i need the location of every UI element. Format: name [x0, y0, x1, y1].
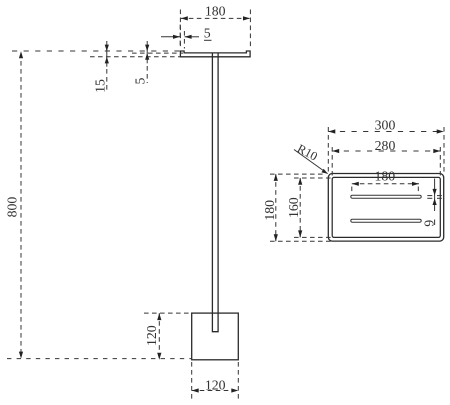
dimension 5 (lip height, vertical) [132, 41, 149, 84]
basket inner wall [332, 177, 440, 237]
svg-text:180: 180 [205, 4, 226, 19]
dimension 120 (base height, left) [144, 313, 192, 360]
svg-text:180: 180 [262, 200, 277, 221]
pole (vertical post) [212, 53, 218, 332]
svg-text:120: 120 [205, 378, 226, 393]
dimension 180 (basket outer depth, left) [262, 174, 332, 241]
dimension 800 (overall height) [4, 51, 23, 358]
R10 leader and label [294, 141, 328, 173]
svg-text:5: 5 [204, 25, 211, 40]
extension line: base bottom to left [7, 358, 192, 360]
svg-text:300: 300 [375, 118, 396, 133]
extension line: bar top (y=53) [132, 52, 183, 54]
svg-text:160: 160 [286, 197, 301, 218]
base square [192, 313, 239, 360]
slot 1 [351, 195, 421, 198]
top bar (front view, T-bar with end lips) [180, 51, 250, 57]
svg-text:120: 120 [144, 325, 159, 346]
dimension 120 (base width, bottom) [192, 362, 239, 400]
extension line: lip top to left [12, 50, 180, 52]
dimension 180 (slot length, inside basket) [352, 168, 419, 194]
slot 2 [351, 219, 421, 222]
svg-text:180: 180 [374, 168, 395, 183]
svg-text:800: 800 [4, 197, 19, 218]
svg-text:15: 15 [92, 79, 107, 93]
svg-text:5: 5 [132, 77, 147, 84]
dimension 300 (basket outer width) [328, 118, 444, 174]
dimension 15 (bar total height) [92, 41, 109, 93]
dimension 180 (top bar width) [180, 4, 250, 48]
svg-text:6: 6 [422, 220, 437, 227]
dimension 5 (lip width, horizontal) [161, 25, 212, 49]
dimension 280 (basket inner width) [332, 138, 440, 176]
basket outer outline (plan view, rounded rect R10) [328, 174, 443, 242]
dimension 6 (slot width) [422, 179, 442, 227]
dimension 160 (basket inner depth) [286, 178, 334, 238]
svg-text:280: 280 [375, 138, 396, 153]
extension line: bar bottom (y=56.8) [90, 56, 180, 58]
